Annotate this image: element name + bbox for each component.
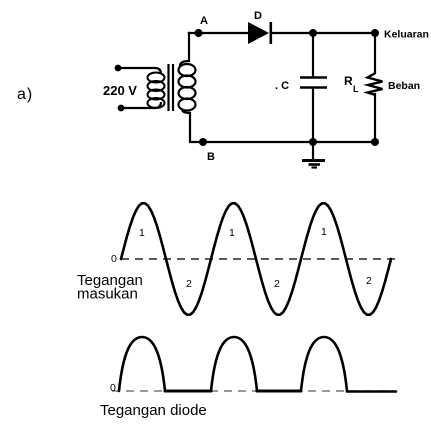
svg-text:. C: . C <box>275 80 289 92</box>
svg-text:D: D <box>254 10 262 22</box>
svg-text:R: R <box>344 74 353 88</box>
svg-text:B: B <box>207 151 215 163</box>
svg-text:A: A <box>200 15 208 27</box>
svg-text:Tegangan diode: Tegangan diode <box>100 402 207 419</box>
svg-text:220 V: 220 V <box>103 83 137 98</box>
svg-text:1: 1 <box>229 227 235 239</box>
svg-text:Beban: Beban <box>388 80 420 92</box>
svg-text:Keluaran: Keluaran <box>384 29 429 41</box>
svg-text:1: 1 <box>321 226 327 238</box>
svg-text:masukan: masukan <box>77 286 138 303</box>
svg-text:0: 0 <box>110 382 116 394</box>
svg-text:L: L <box>353 84 359 94</box>
svg-text:2: 2 <box>274 278 280 290</box>
svg-text:a): a) <box>17 86 33 103</box>
svg-text:0: 0 <box>111 253 117 265</box>
svg-text:2: 2 <box>186 278 192 290</box>
svg-text:1: 1 <box>139 227 145 239</box>
svg-text:2: 2 <box>366 275 372 287</box>
